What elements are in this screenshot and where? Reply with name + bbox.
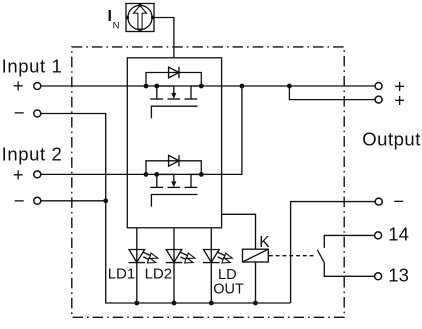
wire: diode D2 bypass loop <box>146 161 201 175</box>
LED LD OUT <box>203 250 232 263</box>
diode D1 <box>169 67 179 78</box>
wire: branch to second plus terminal <box>289 86 375 100</box>
control block <box>127 58 221 228</box>
svg-text:+: + <box>394 89 405 110</box>
terminal: output minus <box>375 198 382 205</box>
wire: input 2 plus to control block <box>41 173 127 175</box>
wire: module 1 main rail <box>127 85 221 87</box>
svg-text:+: + <box>13 75 24 96</box>
terminal: input 2 minus <box>34 197 41 204</box>
node: module 1 diode left junction <box>144 84 149 89</box>
node: LED LD2 on bottom rail <box>172 301 177 306</box>
svg-text:Input 1: Input 1 <box>2 55 63 76</box>
svg-text:Input 2: Input 2 <box>2 143 63 164</box>
wire: input 2 minus <box>41 200 106 202</box>
node: common minus junction <box>103 198 108 203</box>
transistor Q2 (MOSFET) <box>150 174 201 206</box>
node: module 1 diode right junction <box>199 84 204 89</box>
svg-text:OUT: OUT <box>213 282 244 298</box>
LED LD2 <box>166 250 195 263</box>
wire: diode D1 bypass loop <box>146 73 201 87</box>
svg-text:Output: Output <box>362 128 421 149</box>
wire: terminal 14 to contact <box>324 235 374 248</box>
terminal 14 <box>375 232 382 239</box>
wire: contact to terminal 13 <box>324 263 374 277</box>
node: LED LD1 on bottom rail <box>134 301 139 306</box>
svg-text:N: N <box>113 21 120 32</box>
svg-text:−: − <box>393 191 404 212</box>
wire: relay coil to bottom rail <box>255 262 257 303</box>
LED LD1 <box>129 250 158 263</box>
terminal: output plus 2 <box>375 96 382 103</box>
svg-text:LD1: LD1 <box>108 265 136 282</box>
relay coil K <box>243 249 269 262</box>
node: output rail tap to module 2 <box>240 84 245 89</box>
wire: input 1 minus down to common minus junction <box>41 114 106 201</box>
wire: LED LD1 lead <box>136 228 138 303</box>
terminal: output plus 1 <box>375 83 382 90</box>
svg-text:I: I <box>108 8 112 25</box>
label I_N <box>108 8 120 32</box>
node: LED LD OUT on bottom rail <box>209 301 214 306</box>
wire: LED LD OUT lead <box>210 228 212 303</box>
node: relay on bottom rail <box>253 301 258 306</box>
node: module 2 diode right junction <box>199 172 204 177</box>
wire: input 1 plus to control block <box>41 85 127 87</box>
dashed actuation link from K to contact <box>269 255 314 257</box>
wire: potentiometer to control block <box>154 18 174 58</box>
node: module 2 source junction <box>154 172 159 177</box>
terminal 13 <box>375 273 382 280</box>
svg-text:13: 13 <box>388 264 409 285</box>
node: module 1 source junction <box>154 84 159 89</box>
wire: module 2 output up to rail <box>222 86 242 174</box>
potentiometer (current setting) symbol <box>126 3 155 32</box>
svg-text:−: − <box>14 190 25 211</box>
wire: output plus rail <box>222 85 376 87</box>
svg-text:−: − <box>14 102 25 123</box>
wire: LED LD2 lead <box>173 228 175 303</box>
svg-text:14: 14 <box>388 223 409 244</box>
node: module 2 diode left junction <box>144 172 149 177</box>
wire: module 2 main rail <box>127 173 221 175</box>
svg-text:+: + <box>13 164 24 185</box>
transistor Q1 (MOSFET) <box>150 86 201 118</box>
label LD OUT <box>213 267 244 298</box>
svg-text:LD: LD <box>218 267 237 283</box>
node: output rail tap to second plus <box>287 84 292 89</box>
wire: common minus down along bottom rail <box>106 201 291 303</box>
terminal: input 2 plus <box>34 171 41 178</box>
terminal: input 1 minus <box>34 110 41 117</box>
wire: output minus to bottom rail <box>291 202 376 303</box>
module boundary (dash-dot frame) <box>72 47 344 317</box>
switch contact blade <box>317 250 324 263</box>
svg-text:LD2: LD2 <box>145 265 173 282</box>
diode D2 <box>169 155 179 166</box>
wire: control block to relay coil <box>222 214 256 249</box>
terminal: input 1 plus <box>34 83 41 90</box>
